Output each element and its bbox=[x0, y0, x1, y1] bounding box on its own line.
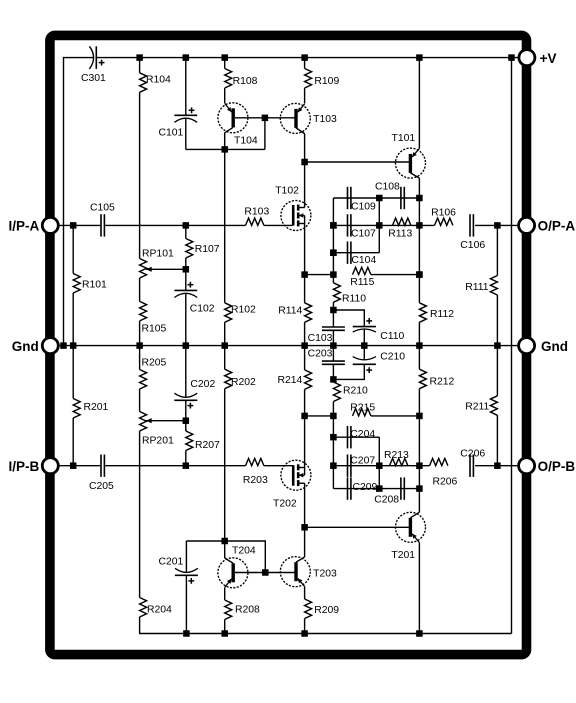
svg-text:T201: T201 bbox=[391, 550, 415, 561]
svg-text:C207: C207 bbox=[350, 456, 375, 467]
svg-text:C102: C102 bbox=[190, 304, 215, 315]
svg-text:R214: R214 bbox=[277, 375, 302, 386]
capacitor C108 bbox=[400, 187, 402, 209]
resistor R208 bbox=[225, 600, 232, 620]
resistor R109 bbox=[304, 58, 306, 69]
svg-text:T104: T104 bbox=[234, 135, 258, 146]
capacitor C301 bbox=[89, 46, 93, 69]
svg-text:C204: C204 bbox=[350, 429, 375, 440]
resistor R115 bbox=[353, 267, 371, 274]
svg-text:R113: R113 bbox=[388, 228, 412, 239]
resistor R211 bbox=[496, 346, 498, 396]
svg-text:C210: C210 bbox=[380, 351, 405, 362]
junction dots on Gnd row bbox=[60, 342, 67, 349]
svg-text:R204: R204 bbox=[147, 605, 172, 616]
svg-text:C202: C202 bbox=[190, 379, 215, 390]
resistor R201 bbox=[72, 346, 74, 399]
wire I/P-A row left bbox=[58, 224, 100, 226]
capacitor C201 bbox=[185, 541, 187, 572]
wire O/P-B to terminal bbox=[475, 465, 518, 467]
wire R215 row bbox=[305, 415, 334, 417]
wire bottom rail bbox=[140, 617, 512, 634]
resistor R107 bbox=[185, 225, 187, 238]
wire R115 row bbox=[305, 274, 334, 276]
mosfet T102 bbox=[281, 201, 311, 231]
svg-text:C205: C205 bbox=[89, 481, 114, 492]
resistor R112 bbox=[419, 303, 426, 323]
wire Gnd row bbox=[58, 345, 518, 347]
wire R109 to T103 bbox=[304, 88, 306, 104]
svg-text:Gnd: Gnd bbox=[12, 339, 39, 354]
resistor R214 bbox=[304, 346, 306, 370]
resistor R111 bbox=[496, 225, 498, 275]
terminal O/P-A bbox=[519, 217, 535, 233]
wire cap-net middle bus lower bbox=[378, 437, 380, 488]
transistor T203 bbox=[280, 557, 310, 587]
svg-text:R215: R215 bbox=[350, 403, 375, 414]
svg-text:R102: R102 bbox=[231, 305, 256, 316]
svg-text:C101: C101 bbox=[159, 127, 184, 138]
capacitor C110 bbox=[333, 310, 364, 327]
svg-text:R213: R213 bbox=[384, 450, 409, 461]
wire T203 to R209 bbox=[304, 586, 306, 599]
svg-text:R207: R207 bbox=[195, 440, 220, 451]
svg-text:O/P-B: O/P-B bbox=[538, 459, 576, 474]
resistor R114 bbox=[305, 303, 312, 323]
capacitor C209 bbox=[347, 477, 349, 499]
svg-text:C106: C106 bbox=[460, 240, 485, 251]
resistor R215 bbox=[353, 409, 371, 416]
wire T204 to R208 bbox=[224, 588, 226, 601]
svg-text:R107: R107 bbox=[195, 244, 220, 255]
resistor R113 bbox=[393, 218, 411, 225]
svg-text:R212: R212 bbox=[430, 377, 455, 388]
svg-text:R101: R101 bbox=[82, 279, 107, 290]
svg-text:C110: C110 bbox=[380, 331, 404, 342]
wire RP101 wiper junction bbox=[183, 266, 190, 273]
wire I/P-A row mid bbox=[105, 224, 245, 226]
svg-text:R202: R202 bbox=[231, 377, 256, 388]
svg-text:R106: R106 bbox=[431, 207, 456, 218]
svg-text:T102: T102 bbox=[275, 185, 299, 196]
wire T201 base row bbox=[305, 526, 409, 528]
resistor R203 bbox=[246, 458, 264, 465]
svg-text:R110: R110 bbox=[342, 294, 366, 305]
svg-text:T204: T204 bbox=[232, 546, 256, 557]
wire T101 emitter bbox=[418, 58, 420, 149]
wire right bus upper bbox=[418, 198, 420, 303]
resistor R202 bbox=[224, 346, 226, 370]
resistor R104 bbox=[139, 58, 141, 73]
transistor T204 bbox=[218, 558, 248, 588]
svg-text:R103: R103 bbox=[244, 207, 269, 218]
capacitor C208 bbox=[400, 477, 402, 499]
wire T102 source to R114 bbox=[304, 224, 306, 303]
svg-text:I/P-A: I/P-A bbox=[9, 219, 40, 234]
svg-text:C109: C109 bbox=[351, 202, 376, 213]
wire RP201 wiper junction bbox=[183, 417, 190, 424]
wire bus x140 mid bbox=[139, 278, 141, 301]
wire O/P-B row bbox=[333, 465, 429, 467]
capacitor C106 bbox=[469, 214, 471, 236]
resistor R205 bbox=[139, 346, 141, 370]
wire T103 collector bbox=[304, 134, 306, 162]
terminal I/P-B bbox=[42, 458, 58, 474]
svg-text:T103: T103 bbox=[313, 114, 337, 125]
svg-text:R211: R211 bbox=[465, 402, 489, 413]
capacitor C206 bbox=[469, 455, 471, 477]
resistor R106 bbox=[435, 218, 453, 225]
potentiometer RP201 bbox=[139, 389, 141, 412]
wire T101 base row bbox=[305, 161, 409, 163]
capacitor C101 bbox=[185, 58, 187, 116]
transistor T201 bbox=[396, 512, 426, 542]
wire C209 row bbox=[333, 488, 419, 490]
svg-text:R206: R206 bbox=[433, 477, 458, 488]
svg-text:+V: +V bbox=[540, 51, 557, 66]
wire T101 collector bbox=[418, 178, 420, 198]
wire O/P-A to terminal bbox=[475, 224, 518, 226]
resistor R207 bbox=[185, 421, 187, 431]
svg-text:T101: T101 bbox=[392, 133, 416, 144]
wire T104 collector bbox=[224, 133, 226, 303]
capacitor C107 bbox=[347, 214, 349, 236]
wire R203 to T202 gate bbox=[264, 465, 293, 467]
capacitor C103 bbox=[322, 326, 345, 328]
resistor R110 bbox=[333, 283, 340, 303]
resistor R206 bbox=[430, 458, 448, 465]
resistor R102 bbox=[225, 303, 232, 323]
svg-text:O/P-A: O/P-A bbox=[538, 219, 576, 234]
transistor T103 bbox=[280, 103, 310, 133]
wire cap-net middle bus upper bbox=[378, 198, 380, 253]
capacitor C202 bbox=[185, 346, 187, 398]
wire bus x225 mid bbox=[224, 322, 226, 345]
capacitor C102 bbox=[185, 269, 187, 290]
svg-text:C104: C104 bbox=[351, 255, 376, 266]
svg-text:R105: R105 bbox=[142, 323, 167, 334]
svg-text:R203: R203 bbox=[243, 475, 268, 486]
svg-text:C208: C208 bbox=[374, 494, 399, 505]
svg-text:R209: R209 bbox=[314, 605, 339, 616]
wire bus x140 lower bbox=[139, 431, 141, 598]
wire O/P-A row bbox=[333, 224, 434, 226]
wire cap-net left bus upper bbox=[332, 198, 334, 283]
capacitor C205 bbox=[100, 455, 102, 477]
capacitor C104 bbox=[347, 242, 349, 264]
svg-text:C108: C108 bbox=[375, 181, 400, 192]
svg-text:RP201: RP201 bbox=[142, 436, 174, 447]
resistor R210 bbox=[333, 382, 340, 402]
svg-text:C201: C201 bbox=[159, 556, 184, 567]
svg-text:R108: R108 bbox=[233, 76, 258, 87]
capacitor C109 bbox=[347, 187, 349, 209]
terminal I/P-A bbox=[42, 217, 58, 233]
wire right bus Gnd bbox=[418, 322, 420, 345]
wire R103 to T102 gate bbox=[264, 224, 293, 226]
capacitor C105 bbox=[100, 214, 102, 236]
resistor R108 bbox=[224, 58, 226, 69]
svg-text:Gnd: Gnd bbox=[541, 339, 568, 354]
wire +V right-side rail bbox=[511, 58, 513, 634]
wire R108 to T104 bbox=[224, 88, 226, 103]
wire T104 base link bbox=[264, 118, 266, 150]
resistor R212 bbox=[418, 346, 420, 370]
svg-text:R210: R210 bbox=[343, 386, 368, 397]
svg-text:R109: R109 bbox=[314, 76, 339, 87]
transistor T104 bbox=[218, 103, 248, 133]
svg-text:C103: C103 bbox=[308, 333, 333, 344]
junction dots on bottom rail bbox=[183, 630, 190, 637]
wire I/P-B row mid bbox=[105, 465, 245, 467]
wire R110 to C103 bbox=[332, 302, 334, 327]
wire junction row B bbox=[186, 541, 265, 573]
wire top-left corner to C301 bbox=[64, 58, 94, 346]
svg-text:R201: R201 bbox=[84, 402, 109, 413]
wire cap-net left bus lower bbox=[332, 416, 334, 489]
wire C104 row bbox=[333, 252, 379, 254]
resistor R101 bbox=[72, 225, 74, 273]
svg-text:C105: C105 bbox=[90, 203, 115, 214]
terminal +V bbox=[519, 50, 535, 66]
wire T201 collector bbox=[418, 543, 420, 634]
svg-text:R115: R115 bbox=[350, 277, 374, 288]
resistor R209 bbox=[305, 599, 312, 619]
svg-text:R114: R114 bbox=[278, 306, 302, 317]
wire +V top rail bbox=[96, 57, 519, 59]
wire T102 drain link bbox=[304, 162, 306, 208]
wire R210 to R215 row bbox=[332, 402, 334, 416]
capacitor C210 bbox=[363, 346, 365, 360]
svg-text:C107: C107 bbox=[351, 228, 376, 239]
wire T202 source link bbox=[304, 483, 306, 527]
svg-text:R104: R104 bbox=[146, 74, 171, 85]
wire right bus lower bbox=[418, 389, 420, 513]
wire C101 row bbox=[186, 148, 265, 150]
resistor R213 bbox=[390, 458, 408, 465]
outer border frame bbox=[50, 35, 527, 654]
terminal O/P-B bbox=[519, 458, 535, 474]
capacitor C203 bbox=[332, 346, 334, 362]
mosfet T202 bbox=[281, 460, 311, 490]
capacitor C204 bbox=[347, 426, 349, 448]
wire I/P-B row left bbox=[58, 465, 100, 467]
svg-text:R112: R112 bbox=[430, 309, 454, 320]
wire T203 collector link bbox=[304, 527, 306, 557]
svg-text:C301: C301 bbox=[81, 73, 106, 84]
resistor R204 bbox=[140, 598, 147, 618]
svg-text:RP101: RP101 bbox=[142, 249, 174, 260]
svg-text:I/P-B: I/P-B bbox=[9, 459, 40, 474]
capacitor C207 bbox=[347, 455, 349, 477]
junction dots on top rail bbox=[136, 54, 143, 61]
svg-text:C209: C209 bbox=[353, 482, 378, 493]
wire C204 row bbox=[333, 436, 379, 438]
svg-text:T202: T202 bbox=[273, 499, 297, 510]
svg-text:R111: R111 bbox=[465, 282, 489, 293]
wire C109 row bbox=[333, 197, 419, 199]
wire bus x305 Gnd bbox=[304, 322, 306, 345]
potentiometer RP101 bbox=[140, 259, 147, 279]
resistor R103 bbox=[246, 218, 264, 225]
wire bus x140 upper bbox=[139, 92, 141, 258]
svg-text:R205: R205 bbox=[142, 357, 167, 368]
svg-text:C206: C206 bbox=[460, 449, 485, 460]
transistor T101 bbox=[396, 148, 426, 178]
wire T204 emitter link bbox=[224, 541, 226, 558]
svg-text:C203: C203 bbox=[308, 348, 333, 359]
wire R214 to T202 bbox=[304, 389, 306, 467]
wire bus x225 lower bbox=[224, 389, 226, 541]
resistor R105 bbox=[140, 301, 147, 321]
terminal Gnd right bbox=[519, 338, 535, 354]
svg-text:T203: T203 bbox=[313, 568, 337, 579]
svg-text:R208: R208 bbox=[235, 605, 260, 616]
terminal Gnd left bbox=[42, 338, 58, 354]
